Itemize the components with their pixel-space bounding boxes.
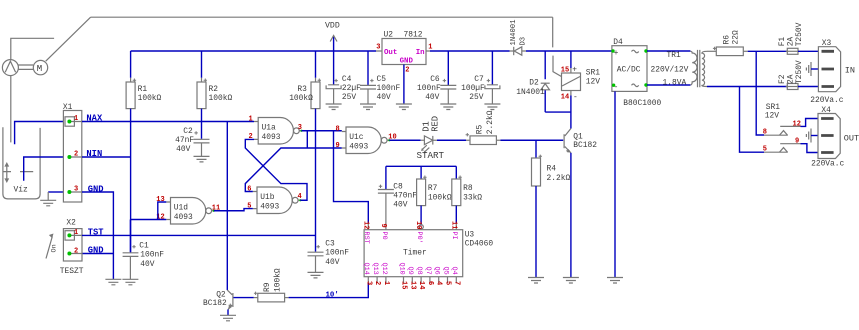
ground (U2) xyxy=(396,104,412,110)
svg-text:P0: P0 xyxy=(380,232,388,240)
svg-text:12: 12 xyxy=(361,221,369,229)
wire D4 to TR1 bottom xyxy=(647,84,690,86)
svg-text:40V: 40V xyxy=(176,145,190,154)
ground (Q2) xyxy=(220,315,236,321)
fuse F2 xyxy=(778,60,804,89)
resistor R2 xyxy=(197,51,232,122)
wire motor to top rail (diagonal) xyxy=(46,17,91,61)
svg-text:C7: C7 xyxy=(474,75,484,84)
origin mark Q2 xyxy=(229,304,232,307)
svg-text:2.2kΩ: 2.2kΩ xyxy=(486,110,495,134)
LED D1 xyxy=(417,116,445,161)
wire R1/MIN/U1d vertical xyxy=(130,122,132,220)
svg-text:U1d: U1d xyxy=(174,203,188,212)
tank xyxy=(3,127,40,199)
svg-text:9: 9 xyxy=(336,142,340,150)
svg-text:BC182: BC182 xyxy=(573,141,597,150)
svg-text:100nF: 100nF xyxy=(140,251,164,260)
svg-text:40V: 40V xyxy=(325,258,339,267)
wire MIN line xyxy=(82,156,130,158)
svg-text:U1c: U1c xyxy=(349,133,363,142)
ground (D4) xyxy=(607,278,623,284)
wire GND to tank ground xyxy=(48,191,63,193)
svg-text:C4: C4 xyxy=(342,75,352,84)
earth (X4 middle pin) xyxy=(806,129,818,143)
timer pin numbers bottom xyxy=(364,281,460,289)
earth (X3 middle pin) xyxy=(806,62,818,76)
svg-text:100µF: 100µF xyxy=(461,84,485,93)
svg-text:Q10: Q10 xyxy=(397,263,405,275)
svg-text:40V: 40V xyxy=(140,260,154,269)
capacitor C7 xyxy=(461,51,500,104)
wire D4 to TR1 top xyxy=(647,50,690,52)
svg-text:T250V: T250V xyxy=(795,22,804,46)
svg-text:-: - xyxy=(573,93,578,102)
capacitor C3 xyxy=(308,239,350,272)
svg-text:7: 7 xyxy=(452,281,460,285)
svg-text:8: 8 xyxy=(763,129,767,137)
svg-text:X4: X4 xyxy=(821,106,831,115)
wire TR1 bottom to F2 xyxy=(707,86,787,88)
ground (C3) xyxy=(308,272,324,278)
svg-text:10: 10 xyxy=(414,221,422,229)
svg-text:OUT: OUT xyxy=(844,134,859,144)
svg-text:2: 2 xyxy=(74,151,78,159)
connector X3 xyxy=(810,39,855,105)
svg-text:1: 1 xyxy=(428,44,432,52)
svg-text:2: 2 xyxy=(74,247,78,255)
wire latch to timer RST xyxy=(334,131,369,223)
nand gate U1c xyxy=(342,127,390,154)
wire latch cross lower (out4 to pin2) xyxy=(245,139,307,200)
svg-text:220Va.c: 220Va.c xyxy=(810,96,843,105)
wire Q2 emitter to ground xyxy=(227,310,229,316)
svg-text:1N4001: 1N4001 xyxy=(510,20,518,46)
wire R6 to F1 xyxy=(748,50,788,52)
nand gate U1d xyxy=(166,198,214,225)
svg-text:11: 11 xyxy=(449,221,457,229)
wire F2 junction down to contact 5 xyxy=(740,87,765,153)
wire contact 9 to X4 xyxy=(801,144,819,153)
resistor R3 xyxy=(289,51,321,109)
svg-text:220V/12V: 220V/12V xyxy=(651,66,689,75)
svg-text:Q14: Q14 xyxy=(362,263,370,275)
svg-text:2: 2 xyxy=(405,67,409,75)
nand gate U1b xyxy=(253,187,300,214)
svg-text:Q6: Q6 xyxy=(433,267,441,275)
svg-text:100kΩ: 100kΩ xyxy=(273,268,282,292)
ground (C7) xyxy=(484,104,500,110)
svg-text:AC/DC: AC/DC xyxy=(617,65,641,74)
wire U1c out to LED xyxy=(389,139,420,141)
svg-text:4093: 4093 xyxy=(174,213,193,222)
bridge rectifier D4 xyxy=(611,38,661,108)
wire F2 to X3 xyxy=(798,86,818,88)
resistor R4 xyxy=(532,140,571,277)
connector X2 xyxy=(63,219,82,262)
ground (C5) xyxy=(360,104,376,110)
ground (R4) xyxy=(528,278,544,284)
svg-text:3: 3 xyxy=(364,281,372,285)
ground (GND line) xyxy=(105,279,121,285)
nand gate U1a xyxy=(254,118,302,145)
svg-text:470nF: 470nF xyxy=(393,191,417,200)
svg-text:1.8VA: 1.8VA xyxy=(663,79,687,88)
svg-text:R7: R7 xyxy=(428,184,438,193)
ground (C6) xyxy=(440,104,456,110)
svg-text:Q9: Q9 xyxy=(406,267,414,275)
svg-text:4093: 4093 xyxy=(262,133,281,142)
svg-text:15: 15 xyxy=(400,281,408,289)
svg-text:D3: D3 xyxy=(519,37,527,46)
svg-text:100nF: 100nF xyxy=(417,84,441,93)
svg-text:X1: X1 xyxy=(63,103,73,112)
svg-text:3: 3 xyxy=(74,186,78,194)
wire U1d input down to TST/C1 xyxy=(129,220,131,253)
timer pin names bottom xyxy=(362,263,458,275)
wire VDD bus left xyxy=(131,50,376,52)
svg-text:Q7: Q7 xyxy=(424,267,432,275)
connector X1 xyxy=(63,103,82,202)
svg-text:40V: 40V xyxy=(425,93,439,102)
resistor R8 xyxy=(452,166,483,223)
svg-text:2.2kΩ: 2.2kΩ xyxy=(547,174,571,183)
svg-text:Out: Out xyxy=(384,49,397,57)
capacitor C6 xyxy=(417,51,456,104)
capacitor C4 xyxy=(326,51,361,104)
wire MAX electrode xyxy=(15,122,64,145)
resistor R9 xyxy=(254,268,289,302)
svg-text:Q12: Q12 xyxy=(380,263,388,275)
svg-text:B80C1000: B80C1000 xyxy=(623,99,661,108)
svg-text:RST: RST xyxy=(362,232,370,244)
switch lever On xyxy=(46,234,59,259)
svg-text:IN: IN xyxy=(845,66,855,76)
diode D3 xyxy=(510,20,528,56)
svg-text:U1a: U1a xyxy=(262,123,276,132)
svg-text:Timer: Timer xyxy=(403,248,427,257)
svg-text:TR1: TR1 xyxy=(667,51,681,60)
svg-text:T250V: T250V xyxy=(795,60,804,84)
shaft coupling xyxy=(18,65,33,69)
svg-text:R5: R5 xyxy=(475,124,484,134)
svg-text:12V: 12V xyxy=(765,112,779,121)
svg-text:4093: 4093 xyxy=(349,142,368,151)
svg-text:3: 3 xyxy=(298,124,302,132)
svg-text:1: 1 xyxy=(249,115,253,123)
svg-text:40V: 40V xyxy=(393,200,407,209)
svg-text:C5: C5 xyxy=(377,75,387,84)
svg-text:9: 9 xyxy=(795,138,799,146)
svg-text:R1: R1 xyxy=(138,85,148,94)
svg-text:GND: GND xyxy=(88,185,104,195)
resistor R6 xyxy=(707,30,748,56)
svg-text:100nF: 100nF xyxy=(377,84,401,93)
pin dot U1c out xyxy=(388,139,390,141)
regulator U2 7812 xyxy=(376,30,430,65)
svg-text:R3: R3 xyxy=(297,85,307,94)
svg-text:4: 4 xyxy=(435,281,443,285)
svg-text:C8: C8 xyxy=(393,182,403,191)
svg-text:Víz: Víz xyxy=(14,186,28,195)
svg-text:14: 14 xyxy=(417,281,425,289)
svg-text:100kΩ: 100kΩ xyxy=(209,94,233,103)
svg-text:25V: 25V xyxy=(342,93,356,102)
wire contact 12 to X4 xyxy=(801,119,819,127)
ground (C4) xyxy=(326,104,342,110)
resistor R7 xyxy=(417,166,452,225)
svg-text:P0': P0' xyxy=(415,232,423,244)
transistor Q2 xyxy=(203,290,233,309)
svg-text:5: 5 xyxy=(763,146,767,154)
svg-text:10': 10' xyxy=(326,291,339,299)
svg-text:GND: GND xyxy=(400,58,414,66)
ground (C1) xyxy=(122,279,138,285)
svg-text:220Va.c: 220Va.c xyxy=(811,160,844,169)
timer U3 CD4060 xyxy=(364,223,493,283)
transistor Q1 xyxy=(564,129,597,153)
svg-text:100kΩ: 100kΩ xyxy=(428,193,452,202)
svg-text:100kΩ: 100kΩ xyxy=(138,94,162,103)
wire LED to R5 xyxy=(433,139,437,141)
water level indicator xyxy=(3,162,34,183)
svg-text:25V: 25V xyxy=(469,93,483,102)
svg-text:TESZT: TESZT xyxy=(60,267,84,276)
svg-text:Q8: Q8 xyxy=(415,267,423,275)
oscillator top wire xyxy=(386,165,456,167)
svg-text:33kΩ: 33kΩ xyxy=(463,193,482,202)
resistor R1 xyxy=(126,51,161,122)
svg-text:6: 6 xyxy=(426,281,434,285)
wire U1d out to U1b pin5 xyxy=(214,209,253,211)
wire GND line right xyxy=(82,192,113,279)
wire out3 to U1c pin8 xyxy=(302,130,342,132)
wire X2 GND xyxy=(82,253,113,255)
wire R9 to timer Q14 xyxy=(289,283,369,298)
wire VDD bus right xyxy=(430,50,612,52)
svg-text:8: 8 xyxy=(336,125,340,133)
svg-text:U2: U2 xyxy=(384,30,394,39)
capacitor C5 xyxy=(360,51,400,104)
svg-text:BC182: BC182 xyxy=(203,299,227,308)
svg-text:Q4: Q4 xyxy=(450,267,458,275)
svg-text:1: 1 xyxy=(74,229,78,237)
svg-text:GND: GND xyxy=(88,246,104,256)
wire rail down to relay xyxy=(553,17,562,76)
svg-text:C2: C2 xyxy=(183,127,193,136)
svg-text:12V: 12V xyxy=(586,78,600,87)
svg-text:X3: X3 xyxy=(822,39,832,48)
svg-text:1: 1 xyxy=(74,115,78,123)
wire R3 down to C3 xyxy=(315,109,317,252)
relay contact 8-12 xyxy=(764,126,801,135)
svg-text:9: 9 xyxy=(379,224,387,228)
motor M1 xyxy=(33,60,47,74)
svg-text:1N4001: 1N4001 xyxy=(516,88,545,97)
svg-text:R6: R6 xyxy=(722,35,731,45)
wire MAX line xyxy=(82,121,254,123)
svg-text:Q5: Q5 xyxy=(441,267,449,275)
svg-text:+: + xyxy=(572,65,577,74)
svg-text:13: 13 xyxy=(408,281,416,289)
capacitor C1 xyxy=(123,220,165,280)
pin dot U1d out xyxy=(213,210,215,212)
svg-text:7812: 7812 xyxy=(404,30,423,39)
wire R5 to Q1 base xyxy=(500,139,563,141)
wire TST line xyxy=(82,234,316,236)
pin dot U1a out xyxy=(300,130,302,132)
svg-text:100kΩ: 100kΩ xyxy=(289,94,313,103)
svg-text:12: 12 xyxy=(793,120,801,128)
svg-text:Q13: Q13 xyxy=(371,263,379,275)
svg-text:D2: D2 xyxy=(529,79,539,88)
svg-text:X2: X2 xyxy=(66,219,76,228)
wire F1 junction down to contact 8 xyxy=(756,51,764,135)
origin mark Q1 xyxy=(566,149,569,152)
resistor R5 xyxy=(466,110,501,144)
relay contact 5-9 xyxy=(764,144,801,153)
svg-text:100nF: 100nF xyxy=(325,249,349,258)
svg-text:On: On xyxy=(51,244,59,252)
wire MIN electrode xyxy=(24,157,64,181)
transformer TR1 xyxy=(651,50,708,88)
diode D2 (flyback) xyxy=(516,51,549,112)
svg-text:D4: D4 xyxy=(613,38,623,47)
svg-text:5: 5 xyxy=(444,281,452,285)
capacitor C8 xyxy=(378,166,417,223)
svg-text:47nF: 47nF xyxy=(175,136,194,145)
wire pump top xyxy=(11,38,54,59)
pin dot U1b out xyxy=(299,199,301,201)
svg-text:R4: R4 xyxy=(547,164,557,173)
relay coil SR1 xyxy=(562,51,601,96)
connector X4 xyxy=(811,106,859,169)
svg-text:C3: C3 xyxy=(325,239,335,248)
wire U2 GND xyxy=(403,65,405,105)
svg-text:3: 3 xyxy=(376,44,380,52)
wire SR1/D2/Q1 collector net xyxy=(545,96,571,129)
wire F1 to X3 xyxy=(798,50,818,52)
svg-text:CD4060: CD4060 xyxy=(465,240,494,249)
svg-text:RED: RED xyxy=(430,116,440,132)
svg-text:C6: C6 xyxy=(430,75,440,84)
wire D4 minus down xyxy=(614,91,616,277)
svg-text:R9: R9 xyxy=(263,282,272,292)
svg-text:R8: R8 xyxy=(463,184,473,193)
svg-text:VDD: VDD xyxy=(325,22,340,31)
svg-text:U3: U3 xyxy=(465,231,475,240)
svg-text:15: 15 xyxy=(561,66,569,74)
wire Q1 emitter to ground xyxy=(570,153,572,278)
timer pin numbers top xyxy=(361,221,457,229)
svg-text:C1: C1 xyxy=(139,241,149,250)
wire Q2 base to R9 xyxy=(234,297,254,299)
svg-text:22µF: 22µF xyxy=(342,84,361,93)
capacitor C2 xyxy=(175,122,209,157)
wire U1d inputs tied xyxy=(131,202,167,220)
wire pump electrode xyxy=(10,76,12,143)
fuse F1 xyxy=(778,22,804,54)
svg-text:In: In xyxy=(416,49,425,57)
pump symbol P1 xyxy=(2,60,18,76)
power symbol VDD xyxy=(325,22,340,52)
wire MAX to Q2 collector xyxy=(226,122,228,291)
timer pin names top xyxy=(362,232,458,244)
svg-text:R2: R2 xyxy=(209,85,219,94)
ground (C2) xyxy=(194,156,210,162)
ground (Q1) xyxy=(563,278,579,284)
svg-text:U1b: U1b xyxy=(260,193,274,202)
svg-text:22Ω: 22Ω xyxy=(731,30,740,44)
svg-text:4093: 4093 xyxy=(260,202,279,211)
svg-text:14: 14 xyxy=(561,93,569,101)
svg-text:PI: PI xyxy=(450,232,458,240)
wire top rail xyxy=(91,16,553,18)
svg-text:1: 1 xyxy=(382,281,390,285)
svg-text:40V: 40V xyxy=(377,93,391,102)
svg-text:2: 2 xyxy=(373,281,381,285)
ground (tank) xyxy=(40,192,56,206)
svg-text:SR1: SR1 xyxy=(586,69,600,78)
svg-text:M: M xyxy=(37,64,42,74)
wire latch cross upper (out3 to pin6) xyxy=(245,131,341,192)
svg-text:START: START xyxy=(417,150,445,161)
